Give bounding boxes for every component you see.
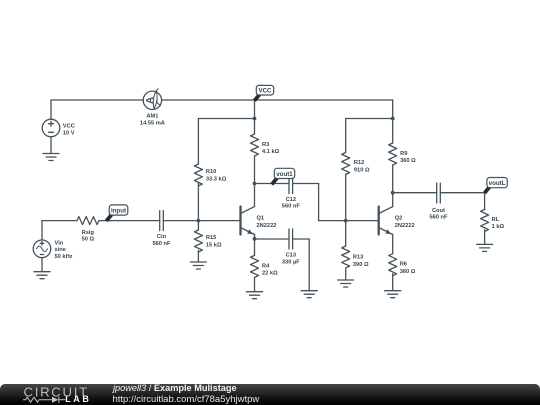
wire top rail drop to stage2 — [392, 100, 394, 119]
junction at Q2 collector — [391, 191, 395, 195]
svg-text:50 Ω: 50 Ω — [82, 237, 95, 243]
wire R4 bottom stub — [254, 278, 256, 292]
junction at vout1 node — [253, 182, 257, 186]
svg-text:2N2222: 2N2222 — [395, 223, 415, 229]
svg-text:14.55 mA: 14.55 mA — [140, 121, 165, 127]
footer url text — [113, 394, 260, 405]
svg-text:voutL: voutL — [489, 180, 506, 187]
wire R10 top stub — [197, 119, 199, 165]
wire Vin riser — [41, 221, 43, 240]
wire RL ground stub — [484, 230, 486, 244]
svg-text:Q1: Q1 — [257, 215, 265, 221]
wire stage2 rail to Q2 base — [319, 220, 378, 222]
svg-text:LAB: LAB — [65, 394, 90, 404]
wire stage2 VCC branch — [346, 118, 393, 120]
svg-text:560 nF: 560 nF — [429, 215, 448, 221]
svg-text:input: input — [111, 208, 126, 215]
transistor Q1 — [241, 207, 255, 235]
svg-text:Rsig: Rsig — [82, 230, 95, 236]
svg-text:R3: R3 — [262, 142, 269, 148]
wire RL top stub — [484, 193, 486, 210]
footer title text — [113, 383, 237, 393]
capacitor C13 — [289, 229, 293, 249]
footer bar — [0, 384, 540, 405]
svg-text:22 kΩ: 22 kΩ — [262, 271, 278, 277]
svg-text:15 kΩ: 15 kΩ — [206, 242, 222, 248]
ground (C13) — [301, 291, 317, 298]
junction at VCC branch — [253, 117, 257, 121]
svg-text:R6: R6 — [400, 262, 407, 268]
wire R10 bottom to base rail — [197, 183, 199, 221]
svg-text:AM1: AM1 — [146, 113, 158, 119]
svg-text:R15: R15 — [206, 235, 216, 241]
wire Cout to voutL — [440, 192, 484, 194]
svg-text:RL: RL — [492, 217, 500, 223]
wire top rail left of AM1 — [51, 99, 143, 101]
ground (R13) — [338, 280, 354, 287]
wire Vin ground stub — [41, 258, 43, 272]
wire Rsig to Cin — [99, 220, 160, 222]
wire VCC source ground stub — [50, 137, 52, 154]
svg-text:R12: R12 — [354, 160, 364, 166]
svg-text:4.1 kΩ: 4.1 kΩ — [262, 149, 280, 155]
ground (R6) — [385, 291, 401, 298]
svg-text:Cout: Cout — [432, 208, 445, 214]
svg-text:R4: R4 — [262, 263, 270, 269]
junction at Q1 emitter — [253, 237, 257, 241]
voltage source Vin — [33, 240, 51, 258]
node input flag — [105, 205, 128, 222]
CircuitLab logo — [0, 383, 100, 405]
svg-text:VCC: VCC — [258, 88, 272, 95]
resistor R15 — [194, 230, 202, 252]
capacitor Cout — [437, 183, 441, 203]
svg-text:910 Ω: 910 Ω — [354, 167, 370, 173]
wire VCC node vertical — [254, 100, 256, 134]
svg-text:2N2222: 2N2222 — [257, 223, 277, 229]
wire R12 top stub — [345, 119, 347, 153]
wire C13 ground drop — [308, 239, 310, 291]
node VCC flag — [253, 85, 274, 102]
svg-text:560 nF: 560 nF — [282, 204, 301, 210]
svg-text:vout1: vout1 — [276, 171, 293, 178]
wire Q2 emitter to R6 — [392, 235, 394, 254]
wire R15 ground stub — [197, 251, 199, 263]
svg-text:560 nF: 560 nF — [152, 241, 171, 247]
wire top rail right of AM1 — [162, 99, 393, 101]
resistor R3 — [251, 134, 259, 156]
ground (R15) — [190, 262, 206, 269]
resistor R10 — [194, 164, 202, 186]
wire vout1 to C12 — [255, 183, 290, 185]
ground (RL) — [477, 244, 493, 251]
node vout1 flag — [270, 168, 294, 185]
wire R13 ground stub — [345, 269, 347, 280]
svg-text:Cin: Cin — [157, 234, 167, 240]
wire C12 to corner — [293, 183, 319, 185]
capacitor C12 — [289, 174, 293, 194]
resistor RL — [481, 210, 489, 232]
resistor R12 — [342, 153, 350, 175]
svg-text:330 µF: 330 µF — [282, 259, 300, 265]
wire Q1 emitter to R4 — [254, 235, 256, 256]
svg-text:C12: C12 — [286, 197, 296, 203]
wire Vin to Rsig — [42, 220, 77, 222]
resistor R6 — [389, 254, 397, 276]
node voutL flag — [483, 178, 507, 195]
svg-text:Vin: Vin — [55, 241, 64, 247]
ground (VCC source) — [43, 154, 59, 161]
wire R9 bottom to Q2 collector — [392, 165, 394, 207]
ammeter AM1 — [143, 89, 161, 110]
wire VCC source top stub — [50, 100, 52, 119]
resistor Rsig — [77, 217, 99, 225]
svg-text:VCC: VCC — [63, 124, 75, 130]
svg-text:R13: R13 — [353, 255, 363, 261]
transistor Q2 — [379, 207, 393, 235]
wire R3 bottom to Q1 collector — [254, 156, 256, 207]
wire branch to R10 — [198, 118, 254, 120]
wire R6 ground stub — [392, 274, 394, 291]
resistor R13 — [342, 246, 350, 268]
svg-text:390 Ω: 390 Ω — [353, 262, 369, 268]
junction at Cin / R10 / R15 — [197, 219, 201, 223]
svg-text:50 kHz: 50 kHz — [55, 254, 73, 260]
junction at stage2 VCC branch — [391, 117, 395, 121]
wire corner down to stage2 rail — [318, 184, 320, 221]
junction at R12 / stage2 rail — [344, 219, 348, 223]
ground (Vin source) — [34, 272, 50, 279]
svg-text:A: A — [145, 97, 156, 104]
svg-text:Q2: Q2 — [395, 215, 403, 221]
svg-text:10 V: 10 V — [63, 131, 75, 137]
svg-text:R10: R10 — [206, 169, 216, 175]
capacitor Cin — [160, 211, 164, 231]
wire Q2 collector out to Cout — [393, 192, 437, 194]
wire C13 to corner — [293, 238, 310, 240]
svg-text:C13: C13 — [286, 253, 296, 259]
wire R9 top stub — [392, 119, 394, 144]
wire R13 top stub — [345, 221, 347, 246]
svg-text:R9: R9 — [400, 151, 407, 157]
svg-text:sine: sine — [55, 247, 66, 253]
svg-text:360 Ω: 360 Ω — [400, 158, 416, 164]
wire emitter to C13 — [255, 238, 290, 240]
wire Cin to Q1 base — [163, 220, 239, 222]
resistor R9 — [389, 143, 397, 165]
svg-text:33.3 kΩ: 33.3 kΩ — [206, 176, 227, 182]
ground (R4) — [247, 292, 263, 299]
wire Q1 emitter node stub — [254, 235, 256, 240]
svg-text:360 Ω: 360 Ω — [400, 269, 416, 275]
voltage source VCC — [42, 119, 60, 137]
resistor R4 — [251, 255, 259, 277]
wire R15 top stub — [197, 221, 199, 230]
wire R12 bottom to stage2 rail — [345, 174, 347, 221]
svg-text:1 kΩ: 1 kΩ — [492, 224, 505, 230]
